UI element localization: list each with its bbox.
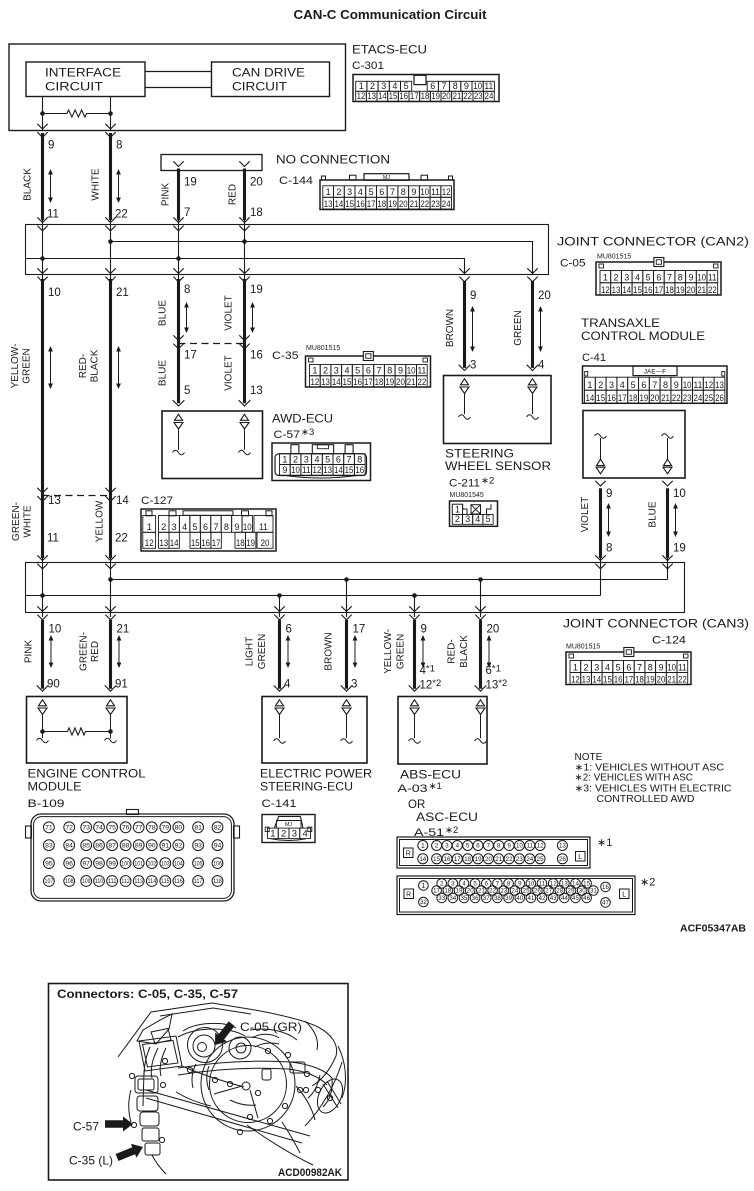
svg-text:C-124: C-124 <box>652 635 686 647</box>
svg-text:8: 8 <box>606 543 612 555</box>
wire end chevron LIGHT GREEN to EPS <box>274 685 286 691</box>
svg-text:3: 3 <box>347 187 352 197</box>
CAN3 dots <box>108 577 113 582</box>
svg-text:∗1: ∗1 <box>597 837 612 849</box>
svg-text:3: 3 <box>304 454 309 464</box>
svg-text:9: 9 <box>674 380 679 390</box>
svg-text:19: 19 <box>640 393 649 403</box>
svg-text:3: 3 <box>445 843 449 850</box>
arrow on YELLOW-GREEN wire <box>50 348 52 388</box>
svg-text:2: 2 <box>293 454 298 464</box>
CAN2 dot w2 <box>108 239 113 244</box>
svg-text:17: 17 <box>654 285 663 295</box>
svg-text:16: 16 <box>644 285 653 295</box>
svg-text:15: 15 <box>389 91 398 101</box>
chevrons w1 at C-127 <box>37 488 47 493</box>
svg-text:9: 9 <box>48 140 54 152</box>
svg-text:8: 8 <box>507 881 511 888</box>
svg-text:95: 95 <box>45 861 53 868</box>
svg-text:CONTROLLED AWD: CONTROLLED AWD <box>597 794 695 805</box>
svg-text:22: 22 <box>506 856 513 863</box>
interface circuit box <box>26 62 145 97</box>
svg-text:18: 18 <box>377 199 386 209</box>
svg-text:77: 77 <box>135 825 143 832</box>
svg-text:YELLOW: YELLOW <box>95 500 106 542</box>
TCM internal terminal left <box>595 434 607 439</box>
svg-text:71: 71 <box>45 825 53 832</box>
svg-text:22: 22 <box>417 377 426 387</box>
wire RED-BLACK to ABS <box>479 620 482 689</box>
CAN2 dot w3 <box>176 256 181 261</box>
wire BROWN pin 9 to 3 <box>463 281 466 368</box>
svg-text:103: 103 <box>161 861 170 867</box>
svg-text:37: 37 <box>483 895 490 902</box>
svg-text:73: 73 <box>82 825 90 832</box>
svg-text:31: 31 <box>590 888 597 895</box>
svg-text:6: 6 <box>286 624 292 636</box>
svg-text:85: 85 <box>82 843 90 850</box>
svg-text:16: 16 <box>356 199 365 209</box>
car dashboard line art <box>118 1003 348 1174</box>
svg-text:16: 16 <box>250 350 263 362</box>
svg-text:ETACS-ECU: ETACS-ECU <box>352 45 427 57</box>
svg-text:26: 26 <box>559 856 566 863</box>
svg-text:6: 6 <box>641 380 646 390</box>
svg-text:21: 21 <box>661 393 670 403</box>
svg-text:C-05: C-05 <box>560 258 586 270</box>
svg-text:4: 4 <box>358 187 363 197</box>
svg-text:ACD00982AK: ACD00982AK <box>278 1167 342 1179</box>
svg-text:Connectors: C-05, C-35, C-57: Connectors: C-05, C-35, C-57 <box>57 987 238 1001</box>
svg-text:PINK: PINK <box>161 183 172 207</box>
svg-text:2: 2 <box>370 81 375 91</box>
svg-text:13: 13 <box>48 495 61 507</box>
svg-text:9: 9 <box>658 662 663 672</box>
svg-text:13: 13 <box>323 465 332 475</box>
svg-text:86: 86 <box>95 843 103 850</box>
wire BLUE pin 10 to 19 <box>666 488 669 558</box>
AWD-ECU internal terminal left <box>175 414 183 420</box>
wire end chevron RED-BLACK to ABS <box>475 685 487 691</box>
svg-text:89: 89 <box>135 843 143 850</box>
svg-text:22: 22 <box>708 285 717 295</box>
svg-text:9: 9 <box>421 624 427 636</box>
wire YELLOW-GREEN to ABS <box>413 620 416 689</box>
svg-text:22: 22 <box>115 209 128 221</box>
svg-text:1: 1 <box>147 522 152 532</box>
svg-text:8: 8 <box>116 140 122 152</box>
svg-text:1: 1 <box>282 454 287 464</box>
svg-text:9: 9 <box>234 522 239 532</box>
connector C-57 pinout <box>272 443 371 481</box>
svg-text:WHITE: WHITE <box>91 168 102 201</box>
arrow on VIOLET wire tcm <box>608 505 610 536</box>
svg-text:3: 3 <box>624 273 629 283</box>
steering wheel sensor box <box>444 376 552 444</box>
svg-text:94: 94 <box>214 843 222 850</box>
svg-text:101: 101 <box>134 861 143 867</box>
svg-text:15: 15 <box>633 285 642 295</box>
svg-text:MJ: MJ <box>285 822 293 828</box>
svg-text:1: 1 <box>326 187 331 197</box>
svg-text:19: 19 <box>676 285 685 295</box>
svg-text:10: 10 <box>516 843 523 850</box>
svg-text:15: 15 <box>345 465 354 475</box>
svg-text:115: 115 <box>161 879 170 885</box>
junction dot left <box>40 111 45 116</box>
svg-text:7: 7 <box>487 843 491 850</box>
svg-text:14: 14 <box>170 538 179 548</box>
wire w9 from CAN3 bus <box>279 596 281 618</box>
svg-text:79: 79 <box>162 825 170 832</box>
svg-text:15: 15 <box>343 377 352 387</box>
ABS box <box>398 697 487 765</box>
bus line lower <box>145 87 212 89</box>
svg-text:21: 21 <box>410 199 419 209</box>
svg-text:4: 4 <box>314 454 319 464</box>
svg-text:12: 12 <box>357 91 366 101</box>
svg-text:4: 4 <box>456 843 460 850</box>
svg-text:46: 46 <box>583 895 590 902</box>
svg-text:26: 26 <box>715 393 724 403</box>
svg-text:10: 10 <box>683 380 692 390</box>
arrow on YELLOW-GREEN to ABS <box>422 637 424 667</box>
svg-text:VIOLET: VIOLET <box>224 355 235 391</box>
svg-text:ELECTRIC POWER: ELECTRIC POWER <box>260 769 372 781</box>
svg-text:BLACK: BLACK <box>23 168 34 201</box>
svg-text:R: R <box>406 851 411 858</box>
chevrons wire 3 CAN2 top <box>173 217 183 222</box>
svg-text:10: 10 <box>420 187 429 197</box>
arrow to C-35 <box>116 1144 143 1161</box>
SWS internal terminal right <box>529 379 537 385</box>
arrow on BLACK wire <box>50 171 52 202</box>
svg-text:C-57: C-57 <box>73 1120 99 1134</box>
svg-text:17: 17 <box>454 856 461 863</box>
svg-text:42: 42 <box>539 895 546 902</box>
svg-text:7: 7 <box>652 380 657 390</box>
svg-text:19: 19 <box>246 538 255 548</box>
wire end chevron PINK to ECM <box>37 685 49 691</box>
svg-text:13: 13 <box>321 377 330 387</box>
svg-text:11: 11 <box>259 522 268 532</box>
svg-text:88: 88 <box>122 843 130 850</box>
svg-text:18: 18 <box>635 674 644 684</box>
svg-text:117: 117 <box>194 879 203 885</box>
svg-text:7: 7 <box>496 881 500 888</box>
svg-text:4: 4 <box>302 828 307 839</box>
svg-text:RED: RED <box>90 641 101 662</box>
svg-text:C-41: C-41 <box>582 352 606 364</box>
svg-text:RED-: RED- <box>78 354 89 378</box>
svg-text:106: 106 <box>213 861 222 867</box>
svg-text:15: 15 <box>603 674 612 684</box>
svg-text:17: 17 <box>364 377 373 387</box>
wire end chevron BROWN to EPS <box>341 685 353 691</box>
chevrons wire 2 CAN2 top <box>105 217 115 222</box>
wire 4 through CAN2 band <box>244 220 246 279</box>
chevrons w1 CAN3 top <box>37 555 47 560</box>
wire end chevron GREEN-RED to ECM <box>105 685 117 691</box>
svg-text:13: 13 <box>559 843 566 850</box>
arrow on WHITE wire <box>118 171 120 202</box>
svg-text:2: 2 <box>598 380 603 390</box>
svg-text:GREEN: GREEN <box>22 348 33 384</box>
svg-text:14: 14 <box>586 393 595 403</box>
svg-text:99: 99 <box>108 861 116 868</box>
svg-text:112: 112 <box>121 879 130 885</box>
TCM internal terminal right <box>662 434 674 439</box>
svg-text:15: 15 <box>191 538 200 548</box>
chevrons wire WHITE at ETACS exit <box>105 124 115 129</box>
svg-text:4: 4 <box>635 273 640 283</box>
svg-text:84: 84 <box>65 843 73 850</box>
svg-text:3: 3 <box>451 881 455 888</box>
wire RED-BLACK pin 21 to 14 <box>109 279 112 558</box>
svg-text:6: 6 <box>203 522 208 532</box>
wire GREEN-RED to ECM <box>109 620 112 689</box>
chevrons w7 CAN3 top <box>595 555 605 560</box>
connector B-109 pinout <box>31 814 234 901</box>
svg-text:24: 24 <box>694 393 703 403</box>
svg-text:5: 5 <box>369 187 374 197</box>
svg-text:20: 20 <box>399 199 408 209</box>
svg-text:CAN-C Communication Circuit: CAN-C Communication Circuit <box>294 8 488 22</box>
svg-text:16: 16 <box>399 91 408 101</box>
chevrons GREEN wire CAN2 bottom <box>527 268 537 273</box>
svg-text:35: 35 <box>461 895 468 902</box>
svg-text:6: 6 <box>366 366 371 376</box>
arrow on BLUE wire <box>186 304 188 332</box>
svg-text:2: 2 <box>435 843 439 850</box>
svg-text:C-05 (GR): C-05 (GR) <box>240 1020 302 1034</box>
svg-text:7: 7 <box>667 273 672 283</box>
svg-text:16: 16 <box>444 856 451 863</box>
svg-text:12: 12 <box>442 187 451 197</box>
wire end chevron YELLOW-GREEN to ABS <box>409 685 421 691</box>
svg-text:C-301: C-301 <box>352 60 384 72</box>
svg-text:13: 13 <box>250 385 263 397</box>
svg-text:CIRCUIT: CIRCUIT <box>232 82 287 94</box>
svg-text:91: 91 <box>115 679 128 691</box>
AWD-ECU box <box>162 411 263 479</box>
svg-text:17: 17 <box>618 393 627 403</box>
wire w10 from CAN3 bus <box>346 580 348 618</box>
chevrons w2 at C-127 <box>105 488 115 493</box>
wire w12 from CAN3 bus <box>480 580 482 618</box>
CAN2 bus lower line <box>25 259 465 276</box>
svg-text:87: 87 <box>108 843 116 850</box>
svg-text:NOTE: NOTE <box>575 752 603 763</box>
svg-text:5: 5 <box>193 522 198 532</box>
wire w11 from CAN3 bus <box>414 596 416 618</box>
svg-text:45: 45 <box>572 895 579 902</box>
wire BLUE pin 8 to 17 <box>177 279 180 403</box>
can drive circuit box <box>212 62 330 97</box>
wire RED pin 20 to 18 <box>243 169 246 221</box>
svg-text:BROWN: BROWN <box>324 632 335 670</box>
svg-text:14: 14 <box>378 91 387 101</box>
chevrons w10 CAN3 bottom <box>341 606 351 611</box>
arrow to C-05 <box>215 1021 235 1045</box>
svg-text:22: 22 <box>463 91 472 101</box>
svg-text:9: 9 <box>464 81 469 91</box>
svg-text:44: 44 <box>561 895 568 902</box>
svg-text:16: 16 <box>353 377 362 387</box>
svg-text:9: 9 <box>470 290 476 302</box>
AWD-ECU internal terminal right <box>241 414 249 420</box>
svg-text:20: 20 <box>485 856 492 863</box>
ECM internal resistor <box>43 728 111 735</box>
CAN2 dot w1 <box>40 256 45 261</box>
svg-text:MU801515: MU801515 <box>566 644 600 651</box>
svg-text:24: 24 <box>442 199 451 209</box>
svg-text:18: 18 <box>464 856 471 863</box>
no-connection box <box>161 155 262 171</box>
svg-text:19: 19 <box>250 284 263 296</box>
svg-text:C-144: C-144 <box>279 175 313 187</box>
wire 2 through CAN2 band <box>110 220 112 279</box>
svg-text:4: 4 <box>284 679 291 691</box>
svg-text:20: 20 <box>650 393 659 403</box>
svg-text:18: 18 <box>250 207 263 219</box>
svg-text:6: 6 <box>656 273 661 283</box>
chevrons w4 at C-35 <box>239 335 249 340</box>
svg-text:5: 5 <box>646 273 651 283</box>
svg-text:GREEN-: GREEN- <box>11 502 22 541</box>
svg-text:90: 90 <box>148 843 156 850</box>
svg-text:1: 1 <box>421 843 425 850</box>
joint connector CAN3 box <box>26 563 685 613</box>
svg-text:L: L <box>578 854 582 861</box>
svg-text:12: 12 <box>704 380 713 390</box>
svg-text:97: 97 <box>82 861 90 868</box>
CAN3 bus lower line <box>25 595 601 597</box>
svg-text:17: 17 <box>184 350 197 362</box>
svg-text:23: 23 <box>474 91 483 101</box>
svg-text:6: 6 <box>379 187 384 197</box>
svg-text:3: 3 <box>292 828 297 839</box>
svg-text:13: 13 <box>612 285 621 295</box>
svg-text:INTERFACE: INTERFACE <box>45 68 121 80</box>
svg-text:12: 12 <box>601 285 610 295</box>
wire w8 into CAN3 <box>667 558 669 580</box>
svg-text:2: 2 <box>614 273 619 283</box>
svg-text:CIRCUIT: CIRCUIT <box>45 82 103 94</box>
connector C-35 pinout <box>306 356 431 387</box>
svg-text:15: 15 <box>433 856 440 863</box>
svg-text:6: 6 <box>336 454 341 464</box>
svg-text:MU801515: MU801515 <box>306 345 340 352</box>
connector C-211 pinout <box>450 501 498 526</box>
svg-text:20: 20 <box>250 177 263 189</box>
svg-text:21: 21 <box>116 287 129 299</box>
arrow on GREEN-RED to ECM <box>118 637 120 667</box>
svg-text:20: 20 <box>487 624 500 636</box>
CAN3 bus upper line <box>111 579 668 581</box>
connector A-51 pinout <box>397 876 635 915</box>
svg-text:13: 13 <box>582 674 591 684</box>
svg-text:109: 109 <box>82 879 91 885</box>
wire end chevron w3 <box>173 400 185 406</box>
svg-text:10: 10 <box>243 522 252 532</box>
svg-text:22: 22 <box>672 393 681 403</box>
svg-text:ABS-ECU: ABS-ECU <box>400 770 461 782</box>
svg-text:MJ: MJ <box>383 175 391 181</box>
svg-text:21: 21 <box>453 91 462 101</box>
svg-text:∗2: ∗2 <box>640 877 655 889</box>
svg-text:20: 20 <box>396 377 405 387</box>
svg-text:47: 47 <box>602 900 609 907</box>
svg-text:L: L <box>622 892 626 899</box>
svg-text:83: 83 <box>45 843 53 850</box>
svg-text:11: 11 <box>484 81 493 91</box>
svg-text:1: 1 <box>270 828 275 839</box>
chevrons wire BLACK at ETACS exit <box>37 124 47 129</box>
svg-text:11: 11 <box>708 273 717 283</box>
svg-text:1: 1 <box>587 380 592 390</box>
chevrons wire 4 CAN2 top <box>239 217 249 222</box>
svg-text:12: 12 <box>537 843 544 850</box>
svg-text:GREEN: GREEN <box>513 310 524 346</box>
svg-text:5: 5 <box>404 81 409 91</box>
svg-text:39: 39 <box>505 895 512 902</box>
SWS internal terminal left <box>461 379 469 385</box>
svg-text:118: 118 <box>213 879 222 885</box>
svg-text:16: 16 <box>355 465 364 475</box>
svg-text:7: 7 <box>184 207 190 219</box>
svg-text:17: 17 <box>410 91 419 101</box>
svg-text:1: 1 <box>312 366 317 376</box>
connector C-124 pinout <box>566 652 691 685</box>
wire PINK to ECM <box>41 620 44 689</box>
svg-text:11: 11 <box>302 465 311 475</box>
svg-text:91: 91 <box>162 843 170 850</box>
arrow on RED-BLACK to ABS <box>488 637 490 667</box>
svg-text:ACF05347AB: ACF05347AB <box>680 924 746 935</box>
svg-text:8: 8 <box>357 454 362 464</box>
svg-text:23: 23 <box>431 199 440 209</box>
chevrons w1 CAN3 bottom <box>37 606 47 611</box>
wire w2 through CAN3 band <box>110 558 112 617</box>
dashed line C-35 between wires <box>179 343 245 345</box>
svg-text:11: 11 <box>694 380 703 390</box>
svg-text:20: 20 <box>538 290 551 302</box>
svg-text:3: 3 <box>381 81 386 91</box>
svg-text:24: 24 <box>526 856 533 863</box>
svg-text:GREEN: GREEN <box>396 634 407 670</box>
svg-text:21: 21 <box>697 285 706 295</box>
svg-text:9: 9 <box>507 843 511 850</box>
ECM internal terminal right <box>107 700 115 706</box>
svg-text:102: 102 <box>147 861 156 867</box>
svg-text:3: 3 <box>465 514 470 524</box>
svg-text:9: 9 <box>398 366 403 376</box>
engine control module box <box>27 697 128 764</box>
svg-text:104: 104 <box>174 861 183 867</box>
wire end chevron w5 <box>459 365 471 371</box>
svg-text:WHITE: WHITE <box>23 505 34 538</box>
svg-text:100: 100 <box>121 861 130 867</box>
svg-text:72: 72 <box>65 825 73 832</box>
svg-text:5: 5 <box>616 662 621 672</box>
svg-text:14: 14 <box>332 377 341 387</box>
svg-text:C-127: C-127 <box>141 495 173 507</box>
arrow on BROWN wire <box>472 308 474 351</box>
wire from interface to terminating resistor right <box>110 97 112 131</box>
svg-text:43: 43 <box>550 895 557 902</box>
svg-text:BLACK: BLACK <box>459 635 470 668</box>
